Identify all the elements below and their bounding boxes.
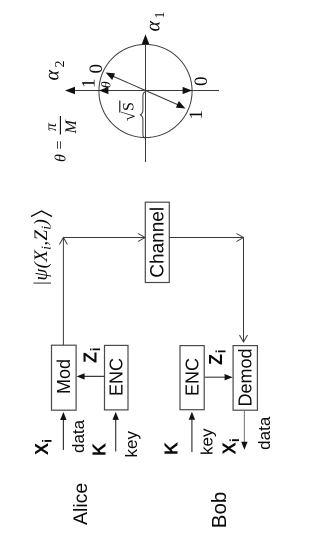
svg-text:θ: θ (53, 154, 70, 162)
svg-text:=: = (52, 140, 69, 149)
svg-text:key: key (122, 431, 141, 458)
label Bob (208, 492, 231, 528)
svg-text:data: data (255, 416, 274, 450)
label 0 bottom (191, 77, 212, 87)
svg-text:K: K (161, 442, 181, 455)
svg-text:ENC: ENC (183, 358, 203, 396)
block ENC Bob (180, 346, 204, 410)
label 0 upper (86, 64, 107, 74)
axis alpha2 vertical (65, 87, 219, 95)
svg-text:Z: Z (206, 354, 226, 365)
block Demod (233, 346, 257, 411)
svg-text:α: α (143, 21, 165, 32)
svg-text:i: i (88, 347, 103, 351)
svg-text:α: α (42, 70, 64, 81)
svg-text:K: K (90, 443, 110, 456)
label Z_i Bob (206, 349, 229, 365)
svg-text:Alice: Alice (70, 483, 92, 525)
label theta angle (100, 81, 115, 88)
svg-text:√: √ (120, 111, 139, 121)
svg-text:data: data (69, 419, 88, 453)
svg-text:ENC: ENC (107, 358, 127, 396)
wire Zi arrow Alice ENC to Mod (77, 373, 104, 379)
arrowhead open down at lower corner (237, 234, 244, 242)
svg-text:π: π (43, 122, 60, 131)
label data Bob (255, 416, 274, 450)
label sqrt S (120, 101, 139, 122)
svg-text:X: X (32, 443, 52, 455)
vector down state 0 (146, 87, 193, 94)
block Mod (52, 345, 77, 410)
wire lower corner to Demod (243, 238, 245, 343)
svg-text:0: 0 (86, 64, 107, 74)
svg-text:key: key (198, 428, 217, 455)
label data Alice (69, 419, 88, 453)
svg-text:θ: θ (100, 81, 115, 88)
svg-text:0: 0 (191, 77, 212, 87)
svg-text:|ψ(Xi,Zi): |ψ(Xi,Zi) (31, 219, 55, 286)
label 1 top (79, 79, 100, 89)
svg-text:Z: Z (81, 352, 101, 363)
label X_i Alice (32, 439, 55, 455)
label key Bob (198, 428, 217, 455)
svg-text:S: S (121, 102, 138, 111)
wire Channel to lower corner (169, 237, 243, 239)
label key Alice (122, 431, 141, 458)
label alpha2 (42, 61, 69, 81)
svg-text:i: i (214, 349, 229, 353)
svg-text:i: i (40, 439, 55, 443)
label alpha1 (143, 12, 169, 32)
axis alpha1 horizontal (142, 34, 150, 162)
arrowhead open down into Channel (138, 234, 145, 242)
svg-text:1: 1 (153, 12, 168, 19)
wire Mod output to corner (62, 238, 64, 346)
vector up state 1 (99, 87, 146, 94)
arrowhead open left into Demod (240, 335, 248, 342)
constellation circle (99, 44, 192, 137)
label 1 bottom (186, 110, 207, 120)
block ENC Alice (105, 345, 129, 410)
svg-text:1: 1 (186, 110, 207, 120)
vector upper right state 0 (106, 73, 146, 91)
svg-text:i: i (227, 438, 242, 442)
svg-text:Mod: Mod (54, 359, 74, 394)
svg-text:1: 1 (79, 79, 100, 89)
block Channel (145, 202, 169, 282)
arrowhead open right at corner (59, 238, 67, 245)
svg-text:Bob: Bob (208, 492, 231, 528)
wire data input Alice (60, 412, 66, 450)
svg-text:M: M (63, 119, 80, 135)
formula theta equals pi over M (43, 116, 80, 162)
wire Zi arrow Bob ENC to Demod (205, 374, 233, 380)
label Z_i Alice (81, 347, 104, 363)
wire Bob key input (189, 412, 195, 452)
brace sqrt S radius (140, 92, 145, 138)
wire corner down to Channel (63, 237, 145, 239)
label Alice (70, 483, 92, 525)
svg-text:Channel: Channel (148, 207, 169, 278)
label psi ket (31, 211, 55, 286)
wire Bob data output (241, 410, 247, 450)
label X_i Bob (220, 438, 243, 454)
vector lower left state 1 (146, 91, 186, 109)
svg-text:Demod: Demod (236, 348, 256, 406)
label K Alice (90, 443, 110, 456)
svg-text:X: X (220, 442, 240, 454)
wire key input Alice (113, 412, 119, 452)
svg-text:2: 2 (53, 61, 68, 68)
label K Bob (161, 442, 181, 455)
